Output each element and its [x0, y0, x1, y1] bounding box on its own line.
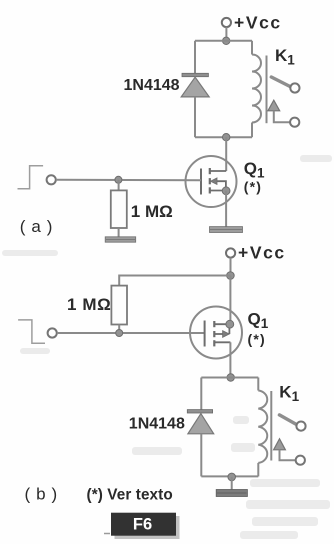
wire loop left upper (a) — [194, 41, 196, 74]
transistor Q1 (b) channel segments — [213, 321, 215, 346]
relay contact common bottom (a) — [290, 118, 299, 127]
transistor Q1 (b) body stub — [214, 333, 222, 335]
input terminal (a) — [47, 175, 56, 184]
wire to ground (b) — [231, 477, 233, 490]
wire loop top (b) — [201, 377, 258, 379]
transistor Q1 (b) body tie riser — [228, 326, 230, 334]
node gate-resistor junction (a) — [115, 176, 122, 183]
svg-text:(*): (*) — [248, 331, 266, 347]
relay core line (b) — [270, 391, 272, 461]
transistor Q1 (a) body circle — [186, 156, 237, 207]
svg-text:F6: F6 — [133, 515, 152, 533]
wire Vcc to loop top (a) — [225, 27, 227, 40]
wire Vcc down (b) — [230, 258, 232, 276]
node source-body tie (a) — [222, 187, 230, 195]
svg-text:+Vcc: +Vcc — [234, 13, 282, 33]
terminal +Vcc (b) — [226, 248, 235, 257]
ground (a) left — [105, 237, 136, 242]
wire loop top (a) — [195, 40, 252, 42]
wire loop right lower (a) — [251, 123, 253, 138]
svg-text:1N4148: 1N4148 — [124, 77, 180, 94]
svg-text:1N4148: 1N4148 — [129, 415, 185, 432]
wire loop bottom (b) — [201, 475, 258, 477]
relay switch lever (b) — [279, 415, 295, 424]
terminal +Vcc (a) — [222, 18, 231, 27]
node Vcc junction (b) — [227, 272, 235, 280]
node source-body tie (b) — [226, 320, 234, 328]
wire loop left upper (b) — [200, 378, 202, 411]
node top junction (a) — [223, 37, 230, 44]
svg-text:1 MΩ: 1 MΩ — [131, 202, 173, 221]
diode D1 1N4148 (b) cathode bar — [187, 410, 212, 413]
transistor Q1 (a) channel segments — [209, 168, 211, 194]
svg-text:+Vcc: +Vcc — [238, 243, 286, 263]
transistor Q1 (a) gate electrode — [200, 169, 202, 195]
wire drain lead (a) — [225, 137, 227, 171]
relay actuator arrow (a) — [268, 100, 280, 111]
wire junction to resistor (a) — [118, 180, 120, 191]
transistor Q1 (a) body stub — [217, 181, 226, 191]
wire drain to relay (b) — [229, 342, 231, 377]
transistor Q1 (b) drain stub — [214, 341, 230, 343]
wire input to gate (a) — [56, 179, 201, 182]
diode D1 1N4148 (a) anode triangle — [181, 77, 209, 97]
transistor Q1 (a) source stub — [210, 190, 226, 192]
svg-text:(*): (*) — [244, 178, 262, 194]
svg-text:(*) Ver texto: (*) Ver texto — [87, 487, 173, 504]
wire loop right upper (a) — [251, 41, 253, 55]
relay coil K1 (b) — [258, 391, 267, 463]
wire loop bottom (a) — [195, 136, 252, 138]
wire Vcc bus to source (b) — [229, 276, 231, 325]
relay contact common bottom (b) — [296, 456, 305, 465]
transistor Q1 (b) source stub — [214, 323, 230, 325]
wire resistor to gate junction (b) — [118, 325, 120, 334]
relay contact NO top (a) — [290, 83, 299, 92]
node relay top junction (b) — [227, 374, 234, 381]
ground (a) right — [210, 227, 243, 233]
relay actuator arrow (b) — [274, 439, 286, 450]
transistor Q1 (a) drain stub — [210, 170, 226, 172]
node bottom junction (a) — [223, 134, 230, 141]
input pulse symbol (a) — [18, 166, 44, 189]
wire junction to resistor top (b) — [119, 276, 230, 286]
wire loop left lower (a) — [194, 97, 196, 137]
relay core line (a) — [266, 56, 268, 124]
wire loop right upper (b) — [257, 378, 259, 391]
input terminal (b) — [48, 328, 57, 337]
resistor R1 1 Mohm (b) — [111, 286, 127, 325]
node gate-resistor junction (b) — [116, 330, 123, 337]
transistor Q1 (a) body arrow — [211, 178, 218, 185]
relay contact NO top (b) — [296, 422, 305, 431]
relay switch lever (a) — [271, 77, 290, 86]
svg-text:1 MΩ: 1 MΩ — [67, 295, 111, 314]
input pulse symbol (b) — [18, 320, 45, 343]
figure tag F6 box — [104, 513, 180, 539]
transistor Q1 (b) body circle — [190, 307, 242, 359]
node relay bottom junction (b) — [228, 473, 236, 481]
transistor Q1 (b) gate electrode — [204, 321, 206, 347]
svg-text:( a ): ( a ) — [20, 217, 53, 236]
relay coil K1 (a) — [252, 55, 261, 123]
svg-text:( b ): ( b ) — [25, 485, 58, 504]
relay actuator stem (b) — [280, 450, 296, 461]
wire loop left lower (b) — [200, 434, 202, 477]
transistor Q1 (b) body arrow — [223, 331, 230, 338]
faint page bleed-through smudges — [2, 155, 332, 539]
wire source to ground (a) — [225, 191, 227, 227]
wire input to gate (b) — [57, 332, 205, 334]
relay actuator stem (a) — [274, 111, 290, 122]
resistor R1 1 Mohm (a) — [111, 190, 127, 228]
diode D1 1N4148 (b) anode triangle — [188, 414, 214, 434]
wire loop right lower (b) — [257, 463, 259, 477]
diode D1 1N4148 (a) cathode bar — [182, 73, 208, 76]
wire resistor to ground (a) — [118, 228, 120, 237]
ground (b) — [216, 490, 247, 497]
